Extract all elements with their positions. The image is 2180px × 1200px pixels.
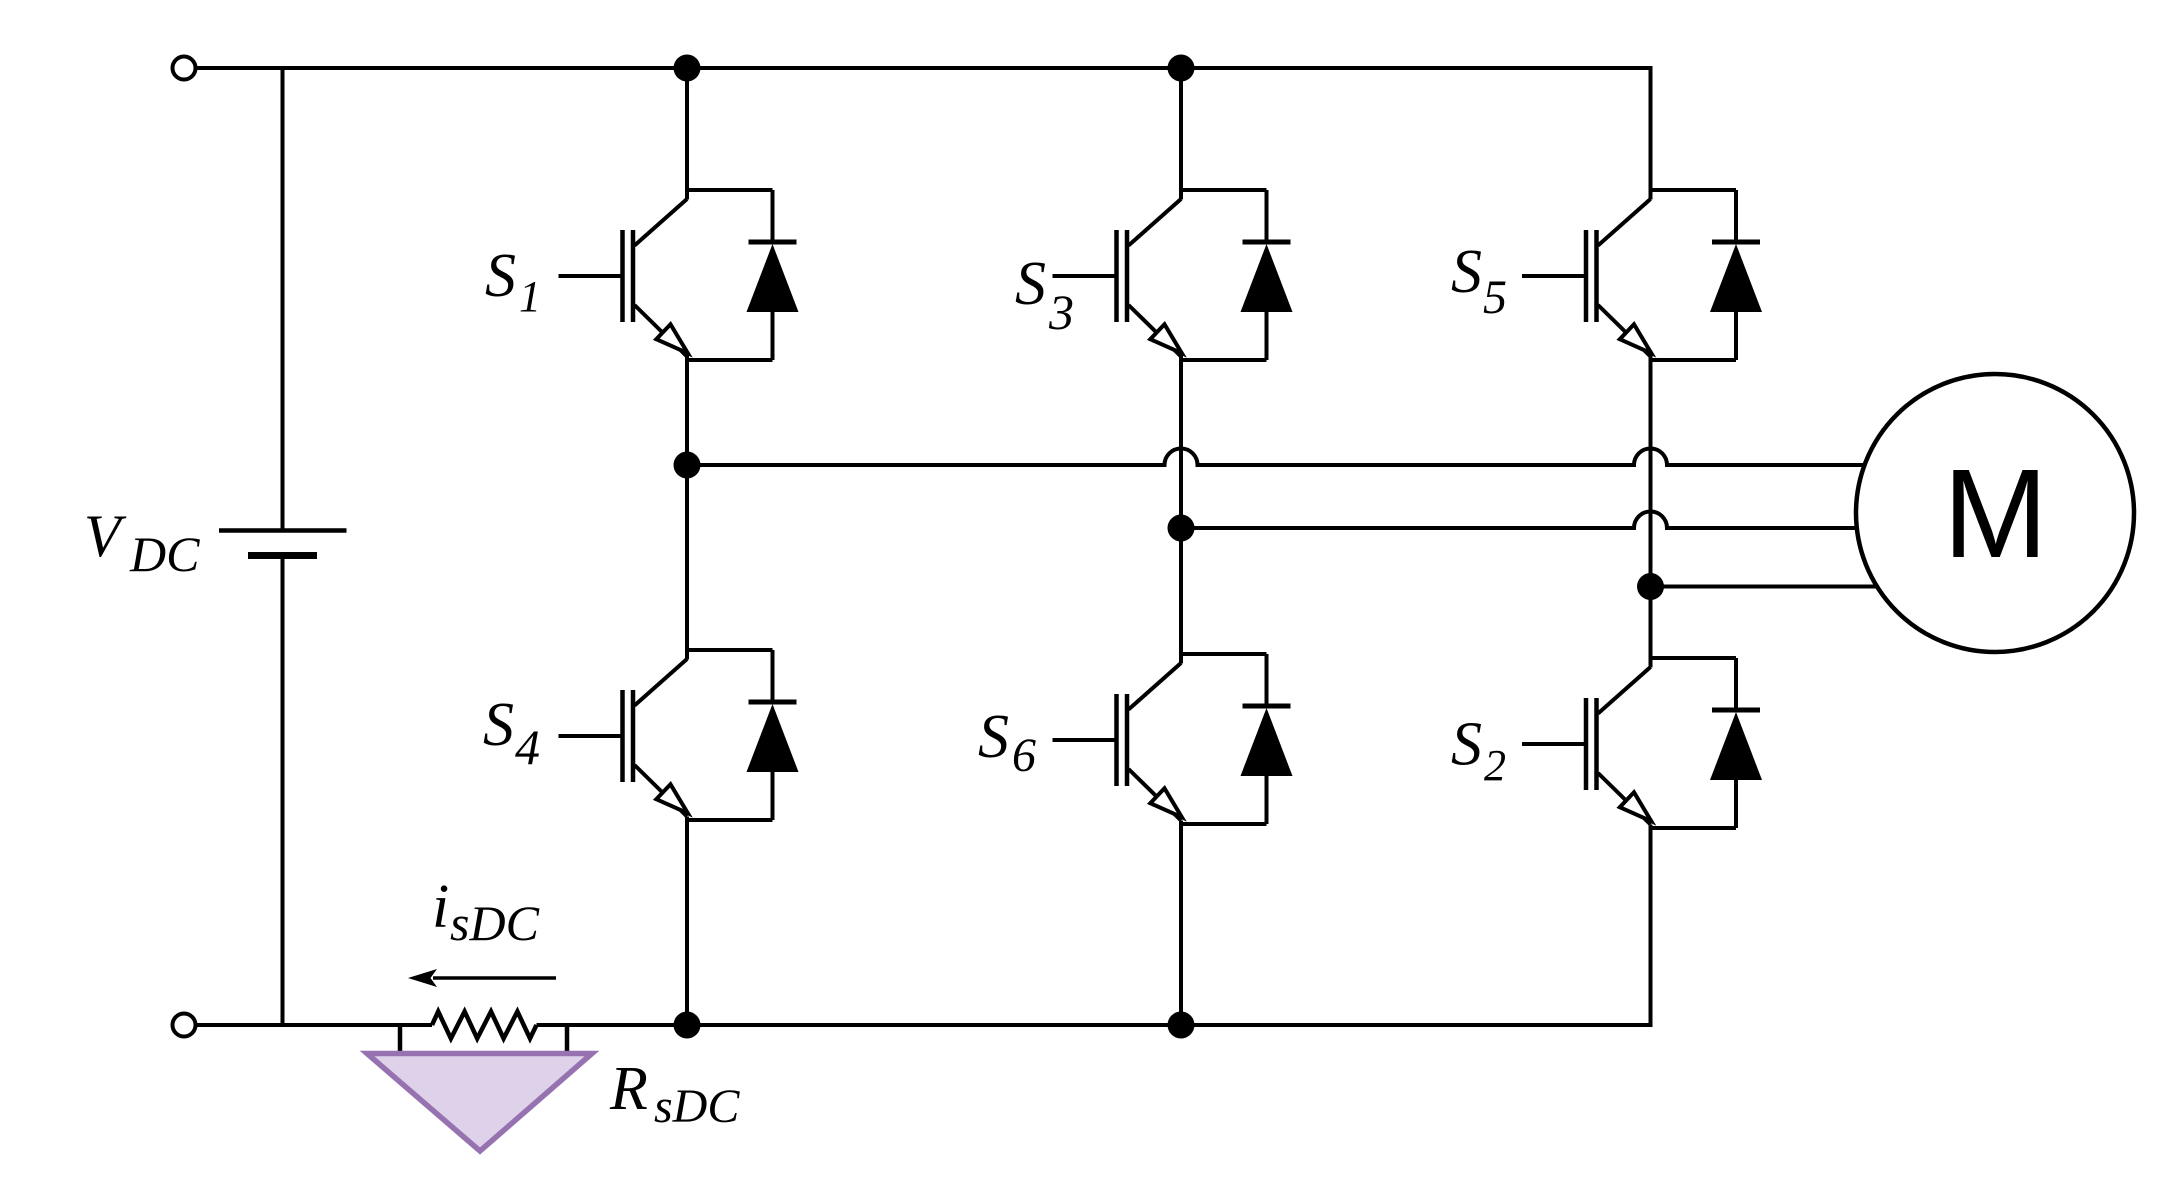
wire: phase A output with hops over legs B and C bbox=[687, 449, 1880, 465]
transistor Q1 (S1) bbox=[559, 190, 773, 360]
svg-text:S: S bbox=[483, 691, 514, 759]
wire: phase leg C vertical segments (x=1650.5) bbox=[1649, 68, 1653, 1025]
junction dot: bottom rail / leg A bbox=[674, 1012, 701, 1039]
wire: shunt sense tap right bbox=[565, 1025, 570, 1054]
diode D2 (freewheeling, antiparallel to S2) bbox=[1710, 658, 1762, 828]
wire: phase leg A vertical segments (x=687) bbox=[685, 68, 689, 1025]
transistor Q3 (S3) bbox=[1053, 190, 1267, 360]
diode D4 (freewheeling, antiparallel to S4) bbox=[747, 650, 799, 820]
transistor Q6 (S6) bbox=[1053, 654, 1267, 824]
svg-text:sDC: sDC bbox=[450, 895, 540, 951]
battery V_DC: upper lead wire bbox=[281, 68, 285, 529]
svg-text:DC: DC bbox=[129, 526, 200, 582]
diode D1 (freewheeling, antiparallel to S1) bbox=[747, 190, 799, 360]
battery V_DC: short negative plate bbox=[248, 552, 317, 559]
current arrow i_sDC (pointing left) bbox=[433, 976, 556, 979]
svg-text:1: 1 bbox=[519, 272, 541, 321]
wire: top DC+ rail bbox=[197, 68, 1651, 200]
svg-text:R: R bbox=[609, 1055, 648, 1123]
transistor Q5 (S5) bbox=[1522, 190, 1736, 360]
wire: phase B output with hop over leg C bbox=[1181, 512, 1880, 529]
junction dot: node phase C bbox=[1637, 573, 1664, 600]
junction dot: node phase B bbox=[1168, 515, 1195, 542]
diode D3 (freewheeling, antiparallel to S3) bbox=[1241, 190, 1293, 360]
terminal: DC- input (open circle bottom-left) bbox=[173, 1014, 196, 1037]
svg-text:S: S bbox=[978, 703, 1009, 771]
svg-text:V: V bbox=[84, 503, 127, 569]
svg-text:sDC: sDC bbox=[654, 1080, 740, 1133]
transistor Q4 (S4) bbox=[559, 650, 773, 820]
junction dot: bottom rail / leg B bbox=[1168, 1012, 1195, 1039]
amplifier: current-sense amp triangle (lavender) bbox=[367, 1054, 592, 1152]
diode D6 (freewheeling, antiparallel to S6) bbox=[1241, 654, 1293, 824]
diode D5 (freewheeling, antiparallel to S5) bbox=[1710, 190, 1762, 360]
svg-text:i: i bbox=[432, 873, 449, 941]
motor M (circle) bbox=[1856, 374, 2134, 652]
svg-text:S: S bbox=[1451, 711, 1482, 779]
battery V_DC: long positive plate bbox=[219, 528, 347, 533]
svg-text:6: 6 bbox=[1012, 729, 1036, 782]
svg-text:5: 5 bbox=[1483, 271, 1507, 324]
wire: bottom DC- rail, right of shunt bbox=[537, 825, 1651, 1026]
wire: phase leg B vertical segments (x=1181) bbox=[1179, 68, 1183, 1025]
transistor Q2 (S2) bbox=[1522, 658, 1736, 828]
wire: phase C output bbox=[1651, 585, 1891, 589]
resistor R_sDC (shunt zigzag) bbox=[432, 1012, 537, 1039]
junction dot: node phase A bbox=[674, 452, 701, 479]
svg-text:S: S bbox=[485, 242, 516, 310]
wire: shunt sense tap left bbox=[398, 1025, 403, 1054]
wire: bottom DC- rail, left of shunt bbox=[197, 1023, 432, 1027]
junction dot: top rail / leg B bbox=[1168, 55, 1195, 82]
svg-text:2: 2 bbox=[1484, 741, 1506, 790]
junction dot: top rail / leg A bbox=[674, 55, 701, 82]
svg-text:3: 3 bbox=[1048, 284, 1074, 340]
svg-text:S: S bbox=[1451, 238, 1482, 306]
svg-text:4: 4 bbox=[515, 719, 540, 775]
svg-text:M: M bbox=[1943, 443, 2048, 584]
svg-text:S: S bbox=[1015, 250, 1046, 318]
terminal: DC+ input (open circle top-left) bbox=[173, 57, 196, 80]
battery V_DC: lower lead wire bbox=[281, 557, 285, 1025]
